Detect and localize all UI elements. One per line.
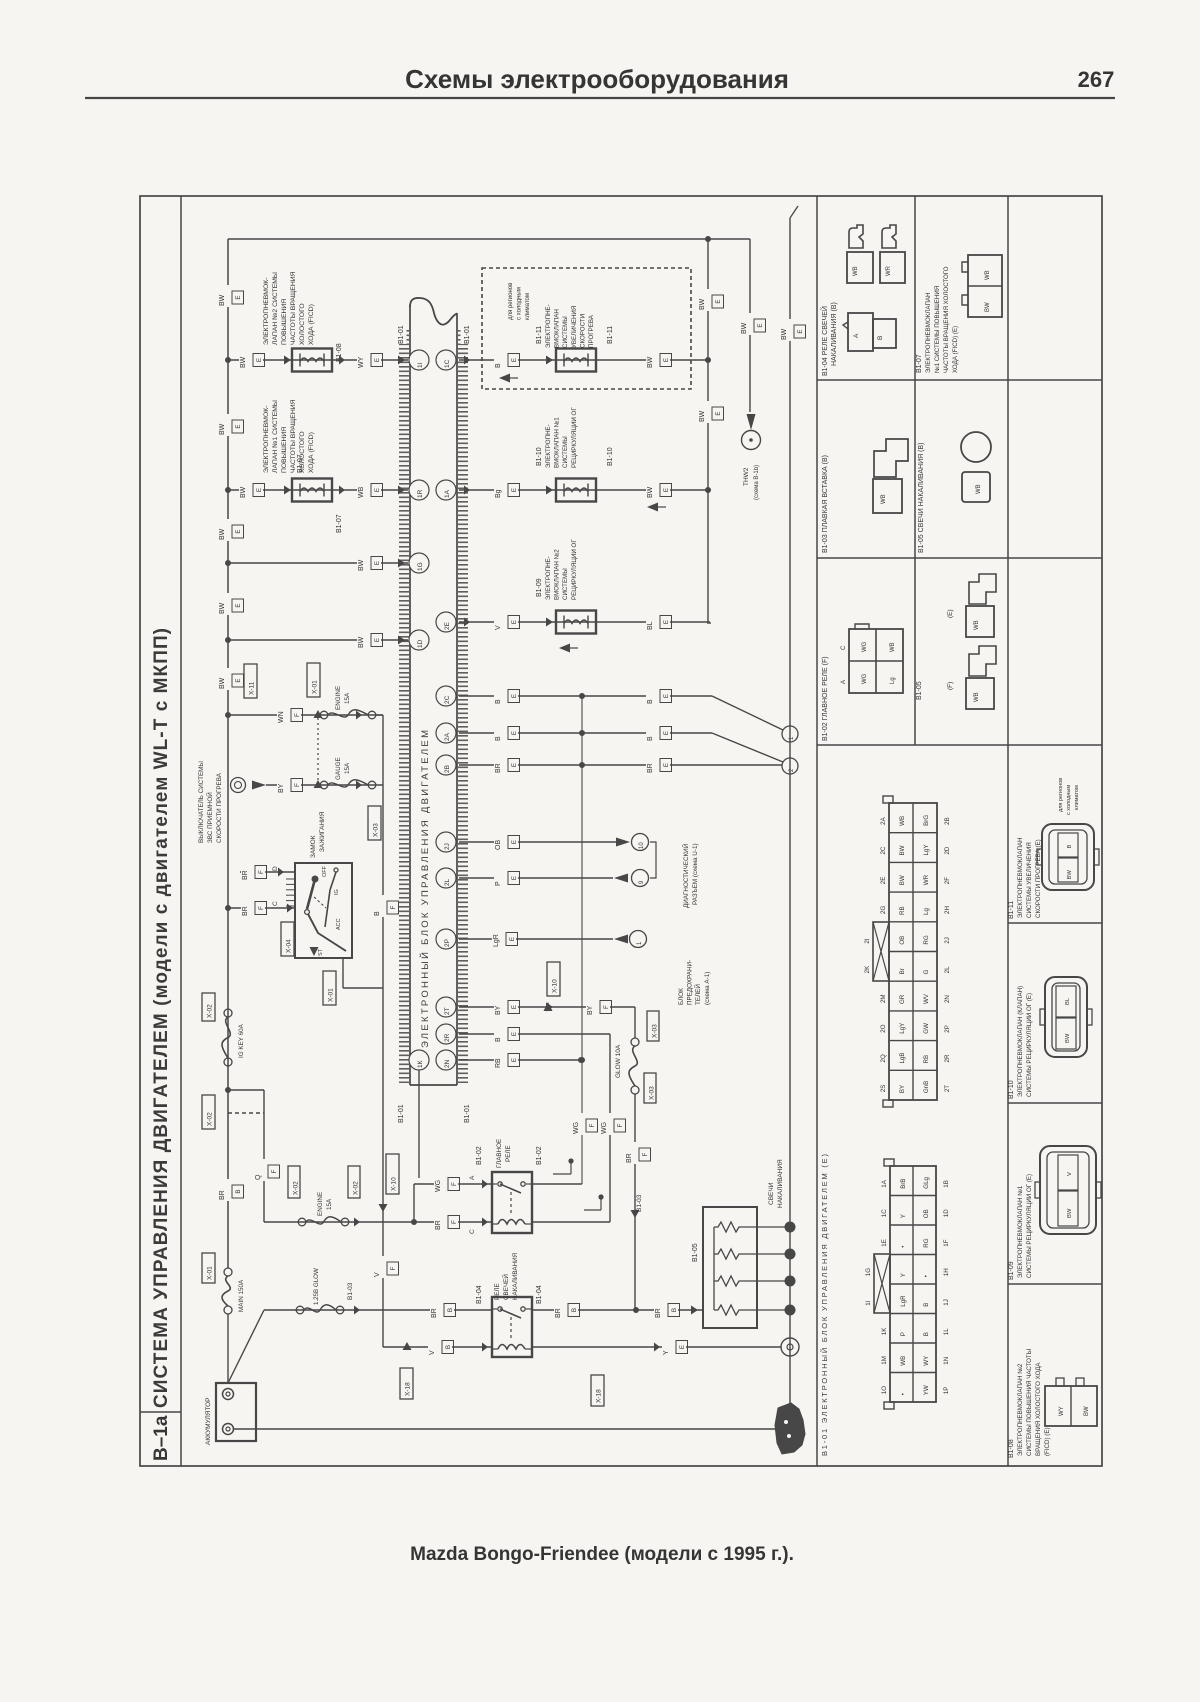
wire row B1-09 y622 bbox=[459, 621, 710, 623]
svg-text:OB: OB bbox=[495, 840, 502, 850]
svg-text:2В: 2В bbox=[444, 765, 451, 773]
svg-text:В1-07: В1-07 bbox=[916, 354, 923, 373]
svg-text:(схема В-1b): (схема В-1b) bbox=[754, 465, 760, 500]
cell B1-05 glyphs bbox=[961, 432, 991, 462]
svg-text:ЭЛЕКТРОПНЕВМОКЛАПАН (КЛАПАН): ЭЛЕКТРОПНЕВМОКЛАПАН (КЛАПАН) bbox=[1017, 986, 1024, 1097]
svg-text:В1-08: В1-08 bbox=[1008, 1439, 1015, 1458]
svg-text:ЭЛЕКТРОПНЕВМОКЛАПАН: ЭЛЕКТРОПНЕВМОКЛАПАН bbox=[1017, 837, 1024, 918]
cell B1-03 fusible link glyph bbox=[874, 439, 908, 477]
svg-text:Х-01: Х-01 bbox=[328, 988, 335, 1002]
wire row B1-08 y360 bbox=[228, 359, 408, 361]
svg-text:ВМОКЛАПАН №2: ВМОКЛАПАН №2 bbox=[554, 549, 561, 600]
svg-text:В1-02 ГЛАВНОЕ РЕЛЕ (F): В1-02 ГЛАВНОЕ РЕЛЕ (F) bbox=[822, 656, 829, 741]
svg-text:E: E bbox=[663, 620, 670, 624]
svg-text:P: P bbox=[900, 1332, 907, 1336]
svg-text:СИСТЕМЫ: СИСТЕМЫ bbox=[562, 316, 569, 348]
svg-text:E: E bbox=[663, 763, 670, 767]
svg-text:F: F bbox=[451, 1182, 458, 1186]
svg-text:2T: 2T bbox=[944, 1085, 951, 1092]
wire row y765 bbox=[459, 764, 782, 766]
ECU pin table upper crossed cell bbox=[873, 922, 889, 981]
svg-text:ACC: ACC bbox=[336, 918, 342, 930]
svg-text:Схемы электрооборудования: Схемы электрооборудования bbox=[405, 64, 789, 94]
svg-text:BR: BR bbox=[655, 1308, 662, 1318]
ECU ground wire to relay bbox=[418, 1070, 420, 1178]
svg-text:1L: 1L bbox=[943, 1328, 950, 1335]
fuse row ENGINE 15A y1222 bbox=[264, 1221, 492, 1223]
cell B1-11 connector glyph bbox=[1042, 824, 1094, 890]
svg-text:ХОДА (FICD) (E): ХОДА (FICD) (E) bbox=[952, 326, 959, 373]
svg-text:F: F bbox=[642, 1152, 649, 1156]
svg-text:В: В bbox=[877, 336, 884, 340]
ignition switch wire D bbox=[240, 871, 295, 873]
svg-text:Х-03: Х-03 bbox=[649, 1086, 656, 1100]
svg-text:V: V bbox=[429, 1350, 436, 1355]
svg-text:F: F bbox=[589, 1123, 596, 1127]
svg-text:D: D bbox=[272, 866, 279, 871]
chassis ground symbol bbox=[775, 1403, 805, 1454]
svg-text:2O: 2O bbox=[880, 1024, 887, 1032]
svg-text:GnB: GnB bbox=[923, 1081, 930, 1093]
svg-text:для регионов: для регионов bbox=[508, 283, 514, 320]
fusible link MAIN 150A bbox=[202, 1253, 215, 1283]
svg-text:LgR: LgR bbox=[493, 934, 500, 947]
svg-text:BW: BW bbox=[1067, 1208, 1073, 1218]
svg-text:V: V bbox=[1067, 1172, 1073, 1176]
svg-text:OB: OB bbox=[899, 936, 906, 945]
relay stub junction A bbox=[553, 1173, 571, 1175]
header rule bbox=[85, 97, 1115, 99]
svg-text:(F): (F) bbox=[947, 682, 954, 690]
svg-text:RB: RB bbox=[923, 1055, 930, 1064]
svg-text:2P: 2P bbox=[944, 1025, 951, 1033]
svg-text:РЕЦИРКУЛЯЦИИ ОГ: РЕЦИРКУЛЯЦИИ ОГ bbox=[571, 407, 578, 468]
svg-text:267: 267 bbox=[1078, 67, 1115, 92]
connector circle pin C bbox=[782, 726, 798, 742]
svg-text:Х-02: Х-02 bbox=[207, 1004, 214, 1018]
svg-text:B: B bbox=[495, 363, 502, 368]
svg-text:LgB: LgB bbox=[899, 1052, 906, 1063]
svg-text:WB: WB bbox=[899, 816, 906, 826]
svg-text:E: E bbox=[663, 731, 670, 735]
svg-text:Х-10: Х-10 bbox=[391, 1177, 398, 1191]
svg-text:ЭЛЕКТРОПНЕ-: ЭЛЕКТРОПНЕ- bbox=[545, 304, 552, 348]
svg-text:GLg: GLg bbox=[923, 1176, 930, 1188]
svg-text:ВРАЩЕНИЯ ХОЛОСТОГО ХОДА: ВРАЩЕНИЯ ХОЛОСТОГО ХОДА bbox=[1035, 1362, 1042, 1456]
svg-text:•: • bbox=[900, 1246, 907, 1248]
ignition switch internals bbox=[312, 876, 319, 883]
svg-text:BR: BR bbox=[242, 870, 249, 880]
svg-text:1B: 1B bbox=[943, 1180, 950, 1188]
svg-text:РЕЛЕ: РЕЛЕ bbox=[505, 1145, 512, 1162]
svg-text:СВЕЧИ: СВЕЧИ bbox=[768, 1182, 775, 1205]
svg-text:1D: 1D bbox=[943, 1209, 950, 1217]
svg-text:1A: 1A bbox=[881, 1179, 888, 1187]
svg-text:RB: RB bbox=[495, 1058, 502, 1068]
svg-text:E: E bbox=[511, 1058, 518, 1062]
svg-text:(FICD) (Е): (FICD) (Е) bbox=[1044, 1427, 1051, 1456]
main relay top feed wire bbox=[413, 1184, 415, 1222]
svg-text:E: E bbox=[663, 488, 670, 492]
svg-text:РЕЛЕ: РЕЛЕ bbox=[494, 1283, 501, 1300]
panel row line y923 bbox=[1008, 922, 1102, 924]
svg-text:В1-09: В1-09 bbox=[1008, 1261, 1015, 1280]
svg-text:ХОЛОСТОГО: ХОЛОСТОГО bbox=[299, 303, 306, 345]
svg-text:F: F bbox=[294, 783, 301, 787]
svg-text:WB: WB bbox=[974, 692, 980, 702]
svg-text:WB: WB bbox=[358, 486, 365, 498]
fuse box pin 1 bbox=[630, 931, 647, 948]
ground connector circle bbox=[781, 1338, 799, 1356]
svg-text:Х-18: Х-18 bbox=[405, 1382, 412, 1396]
left rail label BR(B) bbox=[218, 1179, 242, 1201]
svg-text:ПОВЫШЕНИЯ: ПОВЫШЕНИЯ bbox=[281, 299, 288, 345]
title strip divider bbox=[180, 196, 182, 1466]
panel column line x817 bbox=[816, 196, 818, 1466]
svg-text:E: E bbox=[715, 299, 722, 303]
solenoid valve B1-10 bbox=[556, 479, 596, 502]
svg-text:ПРЕДОХРАНИ-: ПРЕДОХРАНИ- bbox=[687, 960, 694, 1005]
fusible link IG KEY 60A bbox=[202, 993, 215, 1021]
svg-text:WG: WG bbox=[862, 641, 868, 652]
svg-text:WG: WG bbox=[862, 673, 868, 684]
svg-text:Х-01: Х-01 bbox=[207, 1266, 214, 1280]
svg-text:V: V bbox=[495, 625, 502, 630]
svg-text:WB: WB bbox=[974, 620, 980, 630]
wire row y733 bbox=[459, 732, 712, 734]
relay feed rail x582 bbox=[581, 696, 583, 1184]
svg-text:F: F bbox=[390, 905, 397, 909]
fusible link 1.25B GLOW bbox=[296, 1306, 304, 1314]
svg-text:НАКАЛИВАНИЯ (В): НАКАЛИВАНИЯ (В) bbox=[831, 302, 838, 366]
svg-text:BL: BL bbox=[1065, 997, 1071, 1005]
ECU bus hatching left bbox=[399, 330, 409, 1083]
ECU pin table lower crossed cell bbox=[874, 1254, 890, 1313]
svg-text:В1-03: В1-03 bbox=[347, 1282, 354, 1300]
wire row B1-07 y490 bbox=[228, 489, 408, 491]
svg-text:BW: BW bbox=[899, 845, 906, 855]
V(F) wire from switch down bbox=[382, 988, 384, 1347]
svg-text:E: E bbox=[511, 1032, 518, 1036]
svg-text:E: E bbox=[511, 763, 518, 767]
svg-text:климатом: климатом bbox=[1074, 785, 1080, 810]
svg-text:АККУМУЛЯТОР: АККУМУЛЯТОР bbox=[205, 1398, 212, 1445]
wire row B1-07 right of bus bbox=[459, 489, 711, 491]
feeder wire x708 bbox=[707, 239, 709, 624]
svg-text:ЗАМОК: ЗАМОК bbox=[310, 835, 317, 858]
cell B1-04 relay connector bbox=[848, 313, 873, 351]
svg-text:WB: WB bbox=[900, 1356, 907, 1366]
ignition switch box bbox=[295, 863, 352, 958]
svg-text:ХОДА (FICD): ХОДА (FICD) bbox=[308, 304, 315, 345]
relay stub junction B bbox=[584, 1209, 601, 1211]
svg-text:E: E bbox=[256, 488, 263, 492]
svg-text:2Q: 2Q bbox=[880, 1054, 887, 1062]
svg-text:F: F bbox=[258, 906, 265, 910]
svg-text:GAUGE: GAUGE bbox=[335, 757, 342, 780]
svg-text:GW: GW bbox=[923, 1023, 930, 1034]
svg-text:WB: WB bbox=[976, 484, 982, 494]
svg-text:ЭЛЕКТРОПНЕВМОК-: ЭЛЕКТРОПНЕВМОК- bbox=[263, 278, 270, 345]
svg-text:THW2: THW2 bbox=[743, 467, 750, 486]
svg-text:E: E bbox=[509, 937, 516, 941]
svg-text:E: E bbox=[256, 358, 263, 362]
wire row y1060 bbox=[459, 1059, 581, 1061]
svg-text:1G: 1G bbox=[417, 562, 424, 571]
arrow under row 360 bbox=[502, 377, 518, 379]
fuse row ENGINE 15A y715 bbox=[228, 714, 383, 716]
cell B1-04 terminal glyphs bbox=[849, 225, 863, 248]
svg-text:1С: 1С bbox=[444, 359, 451, 368]
panel row line y380 bbox=[817, 379, 1102, 381]
svg-text:YW: YW bbox=[923, 1385, 930, 1395]
solenoid valve B1-09 bbox=[556, 611, 596, 634]
table lower connector tabs bbox=[884, 1159, 894, 1166]
svg-text:НАКАЛИВАНИЯ: НАКАЛИВАНИЯ bbox=[512, 1252, 519, 1300]
cell B1-02 pin grid bbox=[849, 629, 903, 693]
svg-text:ПОВЫШЕНИЯ: ПОВЫШЕНИЯ bbox=[281, 427, 288, 473]
relay B1-04 glow relay bbox=[492, 1297, 532, 1357]
svg-text:LgR: LgR bbox=[900, 1295, 907, 1307]
svg-text:E: E bbox=[511, 488, 518, 492]
svg-text:ГЛАВНОЕ: ГЛАВНОЕ bbox=[496, 1139, 503, 1168]
svg-text:P: P bbox=[495, 881, 502, 886]
svg-text:BW: BW bbox=[219, 602, 226, 614]
svg-text:В: В bbox=[445, 1345, 452, 1349]
branch wire x264 bbox=[263, 1090, 265, 1222]
THW2 connector bbox=[747, 414, 756, 430]
svg-text:BW: BW bbox=[647, 356, 654, 368]
svg-text:ПРОГРЕВА: ПРОГРЕВА bbox=[588, 314, 595, 348]
svg-text:F: F bbox=[451, 1220, 458, 1224]
ECU pin circles left column bbox=[409, 350, 429, 370]
svg-text:BY: BY bbox=[899, 1085, 906, 1093]
svg-text:СИСТЕМА УПРАВЛЕНИЯ ДВИГАТЕЛЕМ: СИСТЕМА УПРАВЛЕНИЯ ДВИГАТЕЛЕМ (модели с … bbox=[151, 628, 172, 1408]
svg-text:E: E bbox=[235, 295, 242, 299]
svg-text:B: B bbox=[495, 736, 502, 741]
svg-text:BrG: BrG bbox=[923, 815, 930, 826]
svg-text:Lg: Lg bbox=[890, 677, 896, 684]
svg-text:F: F bbox=[258, 870, 265, 874]
svg-text:ДИАГНОСТИЧЕСКИЙ: ДИАГНОСТИЧЕСКИЙ bbox=[681, 843, 690, 908]
connector circle pin D bbox=[782, 758, 798, 774]
solenoid valve B1-07 bbox=[292, 479, 332, 502]
svg-text:WY: WY bbox=[923, 1356, 930, 1366]
svg-text:В1-05: В1-05 bbox=[916, 681, 923, 700]
wire row y1034 bbox=[459, 1033, 610, 1035]
svg-text:2J: 2J bbox=[944, 937, 951, 944]
svg-text:BR: BR bbox=[495, 763, 502, 773]
panel row line y745 bbox=[817, 744, 1102, 746]
svg-text:BY: BY bbox=[495, 1005, 502, 1015]
svg-text:2I: 2I bbox=[864, 938, 871, 943]
fuse row GAUGE 15A y785 bbox=[231, 778, 246, 793]
svg-text:BR: BR bbox=[626, 1153, 633, 1163]
svg-text:2N: 2N bbox=[944, 995, 951, 1003]
ECU pin table lower bbox=[890, 1166, 936, 1402]
solenoid valve B1-11 bbox=[556, 349, 596, 372]
diagnostic pin 10 bbox=[632, 834, 649, 851]
svg-text:1P: 1P bbox=[943, 1387, 950, 1395]
svg-text:WG: WG bbox=[435, 1180, 442, 1192]
svg-text:В1-10: В1-10 bbox=[1008, 1080, 1015, 1099]
svg-text:В1-04 РЕЛЕ СВЕЧЕЙ: В1-04 РЕЛЕ СВЕЧЕЙ bbox=[820, 306, 829, 376]
svg-text:В1-09: В1-09 bbox=[536, 578, 543, 597]
svg-text:2R: 2R bbox=[444, 1033, 451, 1042]
svg-text:В1-03: В1-03 bbox=[636, 1194, 643, 1212]
svg-text:1А: 1А bbox=[444, 489, 451, 498]
svg-text:E: E bbox=[374, 561, 381, 565]
svg-text:E: E bbox=[715, 411, 722, 415]
svg-text:1D: 1D bbox=[417, 639, 424, 648]
right ground rail bbox=[789, 218, 791, 1408]
svg-text:BW: BW bbox=[1065, 1033, 1071, 1043]
svg-text:ЧАСТОТЫ ВРАЩЕНИЯ ХОЛОСТОГО: ЧАСТОТЫ ВРАЩЕНИЯ ХОЛОСТОГО bbox=[943, 266, 950, 373]
panel column line x915 bbox=[914, 196, 916, 745]
svg-text:E: E bbox=[757, 323, 764, 327]
panel row line y1103 bbox=[1008, 1102, 1102, 1104]
svg-text:E: E bbox=[235, 424, 242, 428]
B-1a box bbox=[140, 1411, 181, 1413]
svg-text:RB: RB bbox=[899, 906, 906, 915]
svg-text:E: E bbox=[663, 358, 670, 362]
panel column line x1008 bbox=[1007, 196, 1009, 1466]
svg-text:WY: WY bbox=[358, 356, 365, 368]
GLOW fuse 10A bbox=[634, 1007, 636, 1038]
svg-text:1C: 1C bbox=[881, 1209, 888, 1217]
svg-text:E: E bbox=[235, 603, 242, 607]
svg-text:BrB: BrB bbox=[900, 1178, 907, 1188]
svg-text:климатом: климатом bbox=[525, 293, 531, 320]
svg-text:В1-01: В1-01 bbox=[398, 325, 405, 344]
svg-text:BW: BW bbox=[219, 528, 226, 540]
svg-text:1K: 1K bbox=[881, 1327, 888, 1335]
svg-text:Q: Q bbox=[255, 1174, 262, 1180]
svg-text:В1-07: В1-07 bbox=[336, 514, 343, 533]
main relay output wires bbox=[532, 1183, 582, 1185]
svg-text:В–1а: В–1а bbox=[151, 1415, 172, 1461]
svg-text:2G: 2G bbox=[880, 906, 887, 914]
svg-text:РАЗЪЕМ (схема U-1): РАЗЪЕМ (схема U-1) bbox=[692, 843, 699, 905]
svg-text:ЭЛЕКТРОПНЕ-: ЭЛЕКТРОПНЕ- bbox=[545, 556, 552, 600]
glow feed wire x635 down bbox=[634, 1094, 636, 1310]
svg-text:Bg: Bg bbox=[495, 489, 502, 498]
svg-text:РЕЦИРКУЛЯЦИИ ОГ: РЕЦИРКУЛЯЦИИ ОГ bbox=[571, 539, 578, 600]
diagonal to connector circle row696 bbox=[712, 696, 783, 730]
svg-text:OFF: OFF bbox=[322, 865, 328, 877]
svg-text:1I: 1I bbox=[417, 362, 424, 368]
svg-text:СИСТЕМЫ УВЕЛИЧЕНИЯ: СИСТЕМЫ УВЕЛИЧЕНИЯ bbox=[1026, 842, 1033, 918]
ECU bus body bbox=[409, 305, 411, 1085]
svg-text:1O: 1O bbox=[881, 1386, 888, 1394]
svg-text:Mazda Bongo-Friendee (модели с: Mazda Bongo-Friendee (модели с 1995 г.). bbox=[410, 1544, 794, 1565]
arrow under row 490 bbox=[650, 506, 666, 508]
svg-text:Х-02: Х-02 bbox=[293, 1181, 300, 1195]
ignition switch output wire bbox=[342, 958, 344, 988]
glow plug box B1-05 bbox=[703, 1207, 757, 1328]
svg-text:СИСТЕМЫ: СИСТЕМЫ bbox=[562, 568, 569, 600]
wire row y839 diagnostic bbox=[459, 841, 616, 843]
svg-text:LgY: LgY bbox=[899, 1023, 906, 1034]
svg-text:В1-01: В1-01 bbox=[464, 1104, 471, 1123]
svg-text:В1-07: В1-07 bbox=[297, 454, 304, 473]
ECU pin circles right column bbox=[436, 350, 456, 370]
svg-text:В1-10: В1-10 bbox=[536, 447, 543, 466]
svg-text:E: E bbox=[679, 1345, 686, 1349]
wire row y696 bbox=[459, 695, 712, 697]
svg-text:F: F bbox=[617, 1123, 624, 1127]
svg-text:УВЕЛИЧЕНИЯ: УВЕЛИЧЕНИЯ bbox=[571, 306, 578, 348]
svg-text:B: B bbox=[647, 699, 654, 704]
battery feed wires bbox=[227, 1314, 229, 1383]
glow relay coil wire y1347 bbox=[383, 1346, 492, 1348]
svg-text:2С: 2С bbox=[444, 695, 451, 704]
svg-text:2E: 2E bbox=[880, 877, 887, 885]
wire row y640 bbox=[228, 639, 408, 641]
svg-text:E: E bbox=[374, 488, 381, 492]
svg-text:BW: BW bbox=[985, 302, 991, 312]
svg-text:В: В bbox=[235, 1189, 242, 1193]
svg-text:G: G bbox=[923, 969, 930, 974]
svg-text:А: А bbox=[853, 333, 860, 338]
svg-text:СИСТЕМЫ РЕЦИРКУЛЯЦИИ ОГ (Е): СИСТЕМЫ РЕЦИРКУЛЯЦИИ ОГ (Е) bbox=[1026, 1174, 1033, 1278]
svg-text:BW: BW bbox=[358, 636, 365, 648]
svg-text:2S: 2S bbox=[880, 1085, 887, 1093]
svg-text:F: F bbox=[390, 1266, 397, 1270]
ground rail bottom wire bbox=[234, 1428, 790, 1430]
relay B1-02 main relay bbox=[492, 1172, 532, 1233]
svg-text:BW: BW bbox=[1084, 1406, 1090, 1416]
ECU bus hatching right bbox=[458, 330, 468, 1083]
svg-text:E: E bbox=[797, 329, 804, 333]
diagonal to connector circle row733 bbox=[712, 733, 783, 762]
svg-text:B: B bbox=[647, 736, 654, 741]
svg-text:Х-03: Х-03 bbox=[373, 823, 380, 837]
svg-text:BR: BR bbox=[431, 1308, 438, 1318]
svg-text:E: E bbox=[374, 358, 381, 362]
svg-text:F: F bbox=[603, 1005, 610, 1009]
battery bbox=[216, 1383, 256, 1441]
svg-text:BW: BW bbox=[240, 356, 247, 368]
svg-text:B: B bbox=[923, 1303, 930, 1307]
svg-text:E: E bbox=[511, 620, 518, 624]
svg-text:СВЕЧЕЙ: СВЕЧЕЙ bbox=[501, 1274, 510, 1300]
svg-text:10: 10 bbox=[639, 842, 645, 849]
svg-text:WB: WB bbox=[890, 642, 896, 652]
dotted tie between fuses bbox=[317, 718, 319, 780]
svg-text:BW: BW bbox=[219, 294, 226, 306]
svg-text:В: В bbox=[1067, 845, 1073, 849]
svg-text:F: F bbox=[271, 1169, 278, 1173]
svg-text:2Т: 2Т bbox=[444, 1007, 451, 1015]
svg-text:Y: Y bbox=[663, 1350, 670, 1355]
wire row y563 bbox=[228, 562, 408, 564]
svg-text:СИСТЕМЫ ПОВЫШЕНИЯ ЧАСТОТЫ: СИСТЕМЫ ПОВЫШЕНИЯ ЧАСТОТЫ bbox=[1026, 1349, 1033, 1456]
wire row y878 diagnostic bbox=[459, 877, 613, 879]
svg-text:ЭЛЕКТРОПНЕВМОК-: ЭЛЕКТРОПНЕВМОК- bbox=[263, 406, 270, 473]
svg-text:E: E bbox=[374, 638, 381, 642]
svg-text:ЛАПАН №1 СИСТЕМЫ: ЛАПАН №1 СИСТЕМЫ bbox=[272, 400, 279, 473]
svg-text:ВМОКЛАПАН №1: ВМОКЛАПАН №1 bbox=[554, 417, 561, 468]
svg-text:ЭЛЕКТРОПНЕВМОКЛАПАН №2: ЭЛЕКТРОПНЕВМОКЛАПАН №2 bbox=[1017, 1363, 1024, 1456]
cell B1-07 connector glyph bbox=[968, 255, 1002, 317]
diagnostic bracket bbox=[650, 842, 656, 878]
svg-text:В1-02: В1-02 bbox=[476, 1146, 483, 1165]
relay coil rail x610 bbox=[609, 1034, 611, 1222]
svg-text:E: E bbox=[663, 694, 670, 698]
svg-text:В1-05: В1-05 bbox=[692, 1243, 699, 1262]
svg-text:BW: BW bbox=[219, 423, 226, 435]
